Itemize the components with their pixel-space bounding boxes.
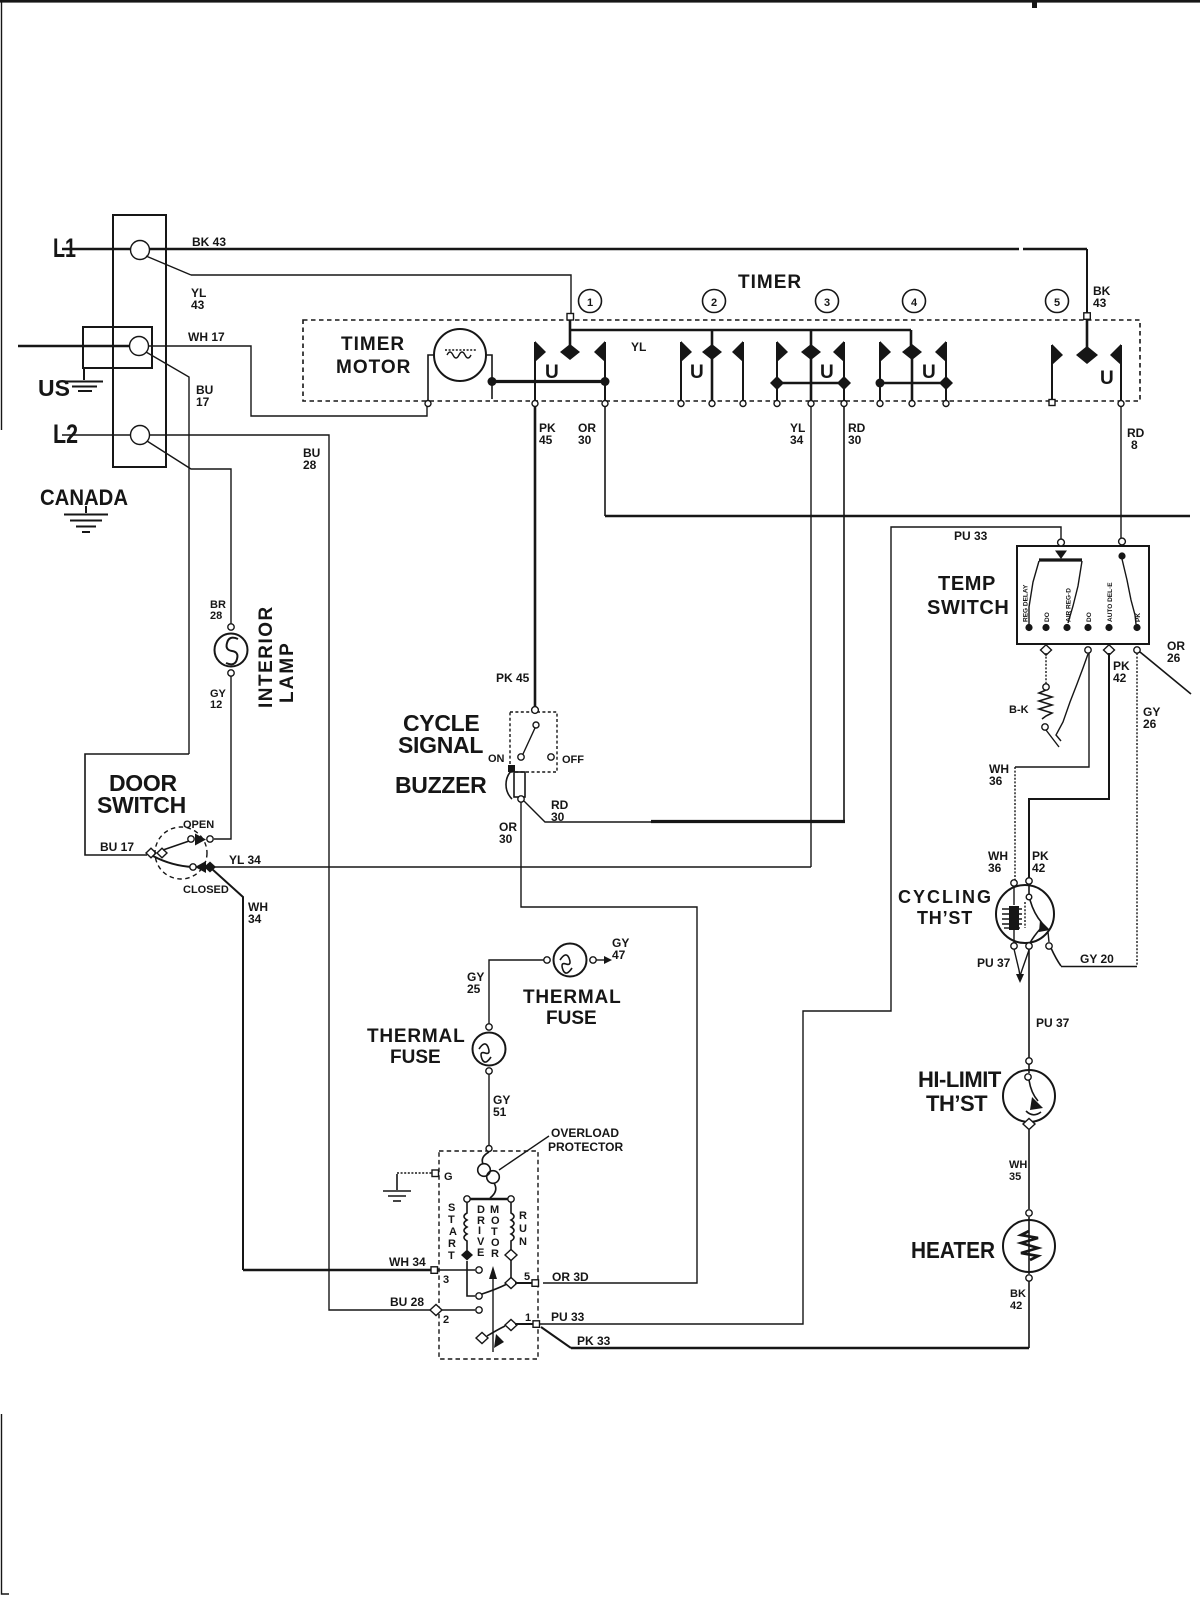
svg-text:T: T	[448, 1250, 455, 1262]
svg-text:PK 33: PK 33	[577, 1334, 611, 1348]
switch 5 right flag	[1120, 345, 1122, 401]
wire PU 37	[1028, 949, 1030, 1058]
interior lamp bulb	[215, 634, 248, 667]
svg-text:AUTO DEL·E: AUTO DEL·E	[1107, 582, 1114, 622]
wire RD 30 from buzzer	[524, 801, 651, 822]
svg-text:FUSE: FUSE	[390, 1047, 441, 1068]
svg-text:PU 33: PU 33	[954, 529, 988, 543]
switch 3 left flag	[776, 342, 778, 401]
svg-text:OR 3D: OR 3D	[552, 1270, 589, 1284]
svg-text:N: N	[519, 1236, 527, 1248]
svg-text:THERMAL: THERMAL	[523, 987, 621, 1008]
internal switch	[1028, 884, 1030, 894]
wire BU 17 diagonal	[146, 352, 189, 754]
wire YL 34 drop from switch3	[810, 406, 812, 867]
svg-text:1: 1	[525, 1312, 531, 1324]
svg-text:T: T	[448, 1214, 455, 1226]
centrifugal blade contact 1	[476, 1333, 488, 1344]
wire OR 30 to temp area	[604, 406, 606, 516]
svg-text:HI-LIMIT: HI-LIMIT	[918, 1067, 1002, 1092]
door switch pivot	[146, 848, 156, 858]
svg-text:28: 28	[303, 458, 317, 472]
wire RD 30 thick segment	[651, 820, 845, 823]
temp switch bar	[1039, 558, 1082, 561]
junction TM to contact bar	[488, 377, 497, 386]
timer contact number 4	[903, 290, 926, 313]
wire WH 34 from door switch	[212, 869, 243, 1270]
capillary funnel	[1014, 949, 1020, 976]
nodes switch4 at box edge	[877, 401, 883, 407]
svg-text:SIGNAL: SIGNAL	[398, 732, 483, 758]
temp switch box	[1017, 546, 1149, 644]
pad4 blade wiggle	[1056, 654, 1088, 741]
actuator arrow	[492, 1274, 494, 1352]
svg-text:BU 28: BU 28	[390, 1295, 424, 1309]
switch 4 right flag	[945, 342, 947, 401]
wire PK 33	[571, 1347, 1029, 1350]
svg-text:LAMP: LAMP	[277, 641, 298, 703]
svg-text:1: 1	[587, 297, 593, 309]
wire BU 28 into motor	[434, 1309, 436, 1311]
svg-text:30: 30	[499, 832, 513, 846]
svg-text:26: 26	[1167, 651, 1181, 665]
wire YL bus	[570, 329, 911, 332]
motor winding box	[470, 1198, 508, 1201]
svg-text:U: U	[820, 362, 834, 383]
svg-text:PU 33: PU 33	[551, 1310, 585, 1324]
buzzer horn	[514, 772, 525, 797]
door switch blade to OPEN	[163, 840, 192, 850]
hi-limit thermostat body	[1003, 1070, 1055, 1122]
wire L2 stub	[62, 434, 131, 436]
svg-text:2: 2	[711, 297, 717, 309]
timer motor left lead	[428, 355, 434, 401]
node	[1026, 1058, 1032, 1064]
svg-text:5: 5	[1054, 297, 1060, 309]
switch 4 jumper bar	[880, 382, 946, 385]
svg-text:DO: DO	[1086, 612, 1093, 622]
svg-text:TH’ST: TH’ST	[917, 908, 973, 928]
svg-text:ON: ON	[488, 753, 505, 765]
svg-text:FUSE: FUSE	[546, 1008, 597, 1029]
thermal fuse lower	[486, 1024, 492, 1030]
wire heater to PK33	[1028, 1281, 1030, 1348]
internal heater element	[1013, 886, 1015, 905]
switch 1 left contact flag PK	[534, 342, 536, 401]
OFF contact	[548, 754, 554, 760]
contact 1 lead	[515, 1323, 533, 1325]
svg-text:BK: BK	[1010, 1288, 1026, 1300]
node switch1 right at box edge	[602, 401, 608, 407]
node run winding bottom	[505, 1250, 517, 1261]
wire BK 43 drop to switch 5	[1086, 249, 1088, 314]
switch 3 cam follower	[810, 330, 813, 346]
svg-text:2: 2	[443, 1314, 449, 1326]
temp switch pads	[1025, 624, 1032, 631]
buzzer switch blade	[523, 728, 535, 754]
node buzzer bottom	[518, 796, 524, 802]
svg-text:DO: DO	[1044, 612, 1051, 622]
svg-text:OFF: OFF	[562, 754, 584, 766]
wire YL 43	[191, 275, 571, 313]
temp switch bottom nodes	[1041, 645, 1052, 655]
svg-text:51: 51	[493, 1105, 507, 1119]
wire PK 45	[534, 406, 537, 708]
switch 1 right contact flag OR	[604, 342, 606, 401]
timer contact number 3	[816, 290, 839, 313]
svg-text:L2: L2	[53, 419, 78, 449]
svg-text:42: 42	[1032, 861, 1046, 875]
svg-text:E: E	[477, 1247, 484, 1259]
pad4 straight lead to WH36	[1015, 653, 1089, 767]
svg-text:30: 30	[578, 433, 592, 447]
svg-text:17: 17	[196, 395, 210, 409]
svg-text:OPEN: OPEN	[183, 819, 214, 831]
wire RD 30 drop from switch3	[843, 406, 845, 820]
switch 3 jumper bar	[777, 382, 844, 385]
svg-text:3: 3	[443, 1274, 449, 1286]
node contact 2 diamond	[430, 1305, 442, 1316]
svg-text:WH 17: WH 17	[188, 330, 225, 344]
svg-text:4: 4	[911, 297, 918, 309]
svg-text:S: S	[448, 1202, 455, 1214]
svg-text:47: 47	[612, 948, 626, 962]
wire BU 28 from L2	[149, 435, 434, 1310]
wire WH 17 to timer motor	[148, 346, 427, 416]
svg-text:WH: WH	[1009, 1159, 1027, 1171]
timer dashed box	[303, 320, 1140, 401]
svg-text:U: U	[1100, 368, 1114, 389]
nodes switch3 at box edge	[774, 401, 780, 407]
svg-text:MOTOR: MOTOR	[336, 357, 411, 378]
cam diamond 2	[702, 344, 722, 360]
switch 4 cam follower	[910, 330, 913, 346]
svg-text:B-K: B-K	[1009, 704, 1029, 716]
svg-text:TIMER: TIMER	[738, 272, 802, 293]
svg-text:SWITCH: SWITCH	[927, 597, 1009, 619]
nodes switch2 at box edge	[678, 401, 684, 407]
contact 3 inner lead	[438, 1269, 475, 1271]
temp switch wiper triangle	[1055, 551, 1067, 560]
svg-text:30: 30	[551, 810, 565, 824]
svg-text:WH 34: WH 34	[389, 1255, 426, 1269]
CLOSED contact	[190, 864, 196, 870]
timer motor right lead	[486, 355, 492, 379]
wiper right leg	[1068, 561, 1082, 623]
svg-text:CANADA: CANADA	[40, 485, 128, 510]
wire BK 43 top	[149, 248, 1019, 251]
svg-text:OVERLOAD: OVERLOAD	[551, 1126, 619, 1140]
svg-text:36: 36	[988, 861, 1002, 875]
start winding to blade	[467, 1261, 475, 1296]
node lamp top	[228, 624, 234, 630]
terminal L2	[131, 426, 150, 445]
nodes bottom	[1011, 943, 1017, 949]
wire GY 26 vertical	[1136, 653, 1138, 966]
switch 2 right flag	[742, 342, 744, 401]
wire OR 26 stub	[1140, 652, 1191, 694]
node YL43 entry square	[567, 314, 574, 321]
switch 5 left flag	[1051, 345, 1053, 400]
svg-text:R: R	[491, 1248, 499, 1260]
svg-text:28: 28	[210, 610, 222, 622]
contact 5 lead	[515, 1282, 532, 1284]
svg-text:TIMER: TIMER	[341, 334, 405, 355]
svg-text:BU 17: BU 17	[100, 840, 134, 854]
node buzzer input	[532, 707, 539, 714]
node contact 3 square	[431, 1267, 438, 1274]
timer motor TM	[434, 329, 486, 381]
svg-text:CLOSED: CLOSED	[183, 884, 229, 896]
svg-text:3: 3	[824, 297, 830, 309]
svg-text:30: 30	[848, 433, 862, 447]
RD8 inner diagonal	[1122, 559, 1136, 624]
node switch1 left at box edge	[532, 401, 538, 407]
node lamp bottom	[228, 670, 234, 676]
overload pointer line	[499, 1136, 549, 1170]
door switch dashed circle	[155, 827, 207, 879]
svg-text:34: 34	[248, 912, 262, 926]
wire PU 33	[540, 527, 1059, 1324]
wire YL 43 diagonal	[146, 256, 191, 275]
svg-text:42: 42	[1010, 1300, 1022, 1312]
svg-text:U: U	[519, 1223, 527, 1235]
svg-text:5: 5	[524, 1271, 530, 1283]
svg-text:PK: PK	[1135, 613, 1142, 622]
svg-text:R: R	[519, 1210, 527, 1222]
terminal WH	[130, 337, 149, 356]
junction bar to right flag	[601, 377, 610, 386]
wiper left leg	[1029, 561, 1039, 624]
terminal block (small, WH)	[83, 327, 152, 368]
cam diamond 4	[902, 344, 922, 360]
wire WH 34 thick into motor	[243, 1269, 431, 1272]
centrifugal blade contact 5	[482, 1284, 507, 1294]
wire RD 8 drop	[1120, 406, 1122, 539]
svg-text:PU 37: PU 37	[977, 956, 1011, 970]
node RD8 at box	[1119, 538, 1126, 545]
wire L2 diagonal to lamp	[147, 441, 231, 627]
svg-text:12: 12	[210, 699, 222, 711]
node timer motor lead at box edge	[425, 401, 431, 407]
junction start winding bottom	[461, 1250, 473, 1261]
door switch blade to CLOSED	[153, 856, 193, 867]
switch 2 left flag	[680, 342, 682, 401]
timer contact number 1	[579, 290, 602, 313]
timer contact number 2	[703, 290, 726, 313]
door switch enclosure	[85, 754, 189, 855]
svg-text:INTERIOR: INTERIOR	[256, 605, 277, 708]
node switch5 right at box edge	[1118, 401, 1124, 407]
overload protector	[482, 1152, 489, 1164]
svg-text:GY 20: GY 20	[1080, 952, 1114, 966]
svg-text:SWITCH: SWITCH	[97, 792, 186, 818]
ON contact	[518, 754, 524, 760]
svg-text:45: 45	[539, 433, 553, 447]
switch 5 cam follower	[1086, 318, 1089, 348]
svg-text:26: 26	[1143, 717, 1157, 731]
contact bar switch 1	[492, 380, 605, 383]
page left edge line lower	[2, 1414, 10, 1594]
thermal fuse upper	[554, 944, 587, 977]
svg-text:25: 25	[467, 982, 481, 996]
svg-text:BUZZER: BUZZER	[395, 772, 487, 798]
heater body	[1026, 1210, 1032, 1216]
svg-text:34: 34	[790, 433, 804, 447]
ground CANADA	[64, 506, 108, 532]
svg-text:42: 42	[1113, 671, 1127, 685]
wire lamp to door switch open contact	[214, 676, 231, 839]
cycling thermostat body	[996, 885, 1054, 943]
terminal L1	[131, 241, 150, 260]
svg-text:REG DELAY: REG DELAY	[1023, 584, 1030, 622]
wire GY 25	[489, 960, 546, 1024]
node PU33 at box	[1058, 539, 1065, 546]
svg-text:YL: YL	[631, 340, 646, 354]
ground motor G	[383, 1174, 411, 1201]
OPEN contact	[188, 836, 194, 842]
node GY51 at motor box	[486, 1146, 492, 1152]
svg-text:HEATER: HEATER	[911, 1237, 995, 1263]
wire to heater	[1028, 1130, 1030, 1209]
node G square	[432, 1170, 439, 1177]
svg-text:YL 34: YL 34	[229, 853, 261, 867]
page top edge bar	[0, 0, 1200, 3]
svg-text:R: R	[448, 1238, 456, 1250]
wire PK 33 diagonal	[541, 1327, 571, 1348]
svg-text:U: U	[690, 362, 704, 383]
wire GY 51	[488, 1074, 490, 1146]
svg-text:8: 8	[1131, 438, 1138, 452]
wire L1 stub	[62, 248, 131, 251]
cam diamond 1	[560, 344, 580, 360]
node switch5 left at box edge	[1049, 400, 1055, 406]
switch 3 right flag	[843, 342, 845, 401]
wire YL 34	[214, 866, 811, 868]
wire PK 42	[1029, 653, 1109, 878]
svg-text:U: U	[922, 362, 936, 383]
timer contact number 5	[1046, 290, 1069, 313]
svg-text:G: G	[444, 1171, 453, 1183]
node BK43 entry square	[1084, 313, 1091, 320]
wire GY 20	[1051, 948, 1061, 966]
wire WH 17 stub left	[18, 345, 130, 348]
svg-text:43: 43	[191, 298, 205, 312]
switch 4 left flag	[879, 342, 881, 401]
motor dashed box	[439, 1151, 538, 1359]
wire OR 30 buzzer to motor contact 5	[521, 802, 697, 1283]
svg-text:TH’ST: TH’ST	[926, 1091, 988, 1116]
svg-text:BK 43: BK 43	[192, 235, 226, 249]
svg-text:AIR REG·D: AIR REG·D	[1066, 588, 1073, 622]
svg-text:35: 35	[1009, 1171, 1021, 1183]
contact 2 inner lead	[442, 1309, 475, 1311]
svg-text:PU 37: PU 37	[1036, 1016, 1070, 1030]
switch 1 cam follower	[569, 317, 572, 346]
switch 2 cam follower	[711, 330, 714, 346]
cam diamond 5	[1076, 346, 1098, 364]
svg-text:PK 45: PK 45	[496, 671, 530, 685]
svg-text:TEMP: TEMP	[938, 573, 996, 595]
svg-text:43: 43	[1093, 296, 1107, 310]
svg-text:US: US	[38, 375, 70, 401]
cam diamond 3	[801, 344, 821, 360]
B-K resistor branch	[1045, 653, 1047, 684]
wire G dotted	[397, 1172, 432, 1174]
svg-text:PROTECTOR: PROTECTOR	[548, 1140, 623, 1154]
nodes top	[1011, 880, 1017, 886]
svg-text:U: U	[545, 362, 559, 383]
buzzer junction	[508, 765, 515, 772]
start winding	[464, 1202, 467, 1250]
terminal block (tall)	[113, 215, 166, 467]
svg-text:THERMAL: THERMAL	[367, 1026, 465, 1047]
run winding	[511, 1202, 514, 1250]
svg-text:CYCLING: CYCLING	[898, 887, 993, 907]
svg-text:36: 36	[989, 774, 1003, 788]
svg-text:A: A	[449, 1226, 457, 1238]
buzzer switch dashed box	[510, 712, 557, 772]
ground US	[66, 368, 103, 391]
page left edge line upper	[1, 0, 3, 430]
